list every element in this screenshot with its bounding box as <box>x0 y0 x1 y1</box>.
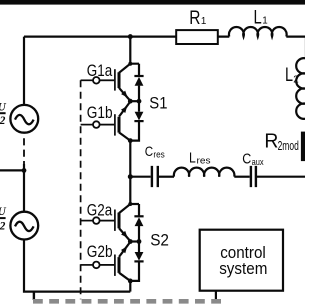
wire gate stub G1a <box>81 79 94 81</box>
svg-text:C: C <box>145 143 153 159</box>
resistor R1 <box>176 8 218 44</box>
svg-text:res: res <box>197 156 211 166</box>
gate terminal G1b <box>87 104 113 128</box>
svg-text:2: 2 <box>293 75 298 86</box>
transistor Q1b (IGBT) <box>100 102 131 141</box>
wire R2mod down to resonant rail <box>257 161 307 177</box>
svg-text:1: 1 <box>201 16 206 27</box>
wire Lres to Cres <box>159 176 174 178</box>
resistor R2mod (right edge, cut) <box>264 130 305 161</box>
svg-text:2mod: 2mod <box>278 138 299 153</box>
diode D1b <box>130 101 143 140</box>
wire top rail right of L1 <box>286 37 306 59</box>
wire Cres to midpoint node <box>130 176 150 178</box>
wire gate stub G2b <box>81 264 94 266</box>
diode D2b <box>130 242 143 281</box>
svg-text:S2: S2 <box>150 232 169 250</box>
wire gate stub G2a <box>81 220 94 222</box>
svg-text:U: U <box>0 206 6 218</box>
wire top rail <box>24 35 229 37</box>
svg-text:G1b: G1b <box>87 104 113 122</box>
wire mid tap to left edge <box>0 169 24 171</box>
svg-text:L: L <box>254 8 262 29</box>
transistor Q2a (IGBT) <box>100 204 131 241</box>
wire L2 to R2mod <box>305 119 307 132</box>
wire S1 bottom to S2 top <box>129 141 131 204</box>
gate terminal G1a <box>87 62 113 84</box>
source U/2 upper <box>0 102 38 133</box>
inductor Lres <box>174 150 235 176</box>
inductor L2 (right edge, partially cut) <box>285 58 305 119</box>
svg-text:G1a: G1a <box>87 62 113 80</box>
wire Caux to Lres <box>234 176 249 178</box>
node left mid <box>22 168 27 173</box>
wire left rail middle <box>23 164 25 212</box>
capacitor Caux <box>242 151 264 187</box>
svg-text:2: 2 <box>0 115 6 127</box>
control system box <box>200 230 283 291</box>
wire gate bus dashed vertical <box>80 80 82 299</box>
diode D1a <box>134 64 143 101</box>
node S2 bottom <box>128 279 133 284</box>
transistor Q1a (IGBT) <box>100 64 131 101</box>
gate terminal G2b <box>87 243 113 268</box>
wire control box connector <box>215 291 217 303</box>
wire left rail top <box>23 37 25 105</box>
svg-text:system: system <box>219 260 267 278</box>
gate terminal G2a <box>87 201 113 224</box>
wire dashed below upper source <box>23 138 25 164</box>
node S2 emitter mid <box>130 240 139 242</box>
svg-text:aux: aux <box>252 157 264 167</box>
control bus gray dashed <box>33 299 221 304</box>
svg-text:2: 2 <box>0 220 6 232</box>
svg-text:G2a: G2a <box>87 201 113 219</box>
svg-text:S1: S1 <box>149 94 167 112</box>
inductor L1 <box>229 8 287 37</box>
wire S2 bottom to bottom rail <box>129 281 131 292</box>
switch S1 <box>87 34 168 143</box>
wire bottom rail stub to bus <box>33 292 35 300</box>
node S1 emitter mid <box>130 100 139 102</box>
transistor Q2b (IGBT) <box>100 242 131 281</box>
source U/2 lower <box>0 206 38 240</box>
top figure border bar <box>0 0 305 5</box>
node midpoint tap <box>128 174 133 179</box>
switch S2 <box>87 201 169 283</box>
node S1 top <box>128 34 133 39</box>
wire gate stub G1b <box>81 124 94 126</box>
svg-text:res: res <box>153 149 165 159</box>
svg-text:L: L <box>189 150 196 166</box>
diode D2a <box>134 204 143 242</box>
svg-text:G2b: G2b <box>87 243 113 261</box>
svg-text:R: R <box>264 130 278 153</box>
svg-text:L: L <box>285 65 293 86</box>
svg-text:U: U <box>0 102 6 114</box>
svg-text:1: 1 <box>262 16 267 27</box>
node S1 bottom <box>128 138 133 143</box>
wire S1 collector drop <box>130 37 139 64</box>
svg-text:C: C <box>242 151 251 167</box>
capacitor Cres <box>145 143 165 187</box>
wire left rail bottom <box>24 240 130 292</box>
wire S2 collector bend <box>130 203 139 205</box>
svg-text:R: R <box>189 8 200 29</box>
